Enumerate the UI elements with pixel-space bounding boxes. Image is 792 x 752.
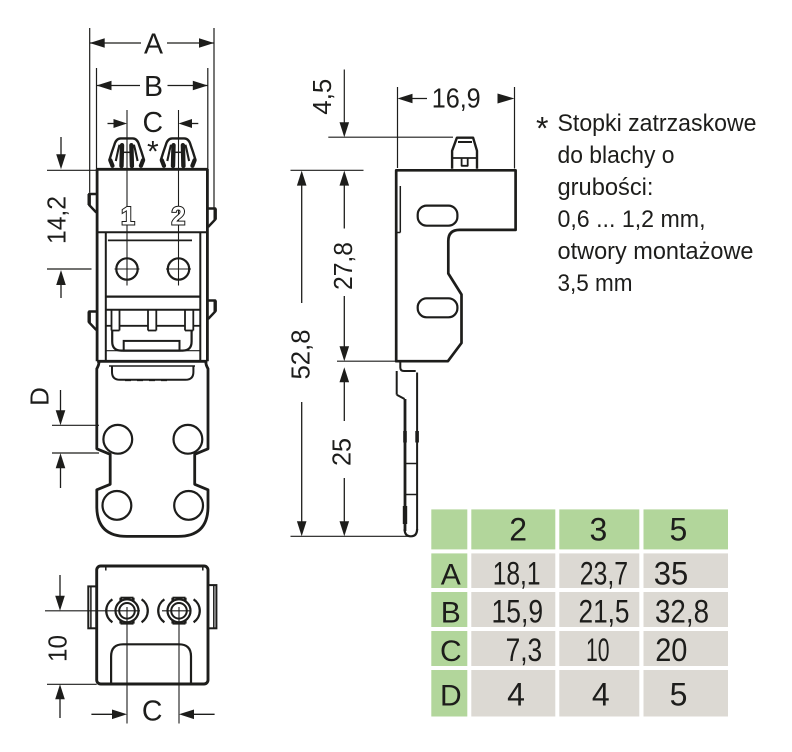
svg-text:2: 2: [171, 203, 185, 231]
svg-text:52,8: 52,8: [286, 330, 316, 380]
svg-text:*: *: [536, 111, 548, 147]
svg-text:A: A: [441, 558, 461, 591]
svg-text:14,2: 14,2: [41, 196, 71, 244]
svg-text:3: 3: [590, 512, 608, 548]
svg-text:35: 35: [654, 555, 689, 591]
svg-text:20: 20: [655, 632, 687, 668]
svg-text:4,5: 4,5: [307, 79, 337, 115]
svg-text:5: 5: [670, 512, 688, 548]
svg-text:0,6 ... 1,2 mm,: 0,6 ... 1,2 mm,: [558, 206, 706, 233]
svg-text:4: 4: [507, 676, 525, 712]
svg-text:D: D: [24, 387, 54, 406]
svg-text:B: B: [144, 71, 163, 103]
svg-text:32,8: 32,8: [655, 593, 709, 629]
svg-text:3,5 mm: 3,5 mm: [558, 270, 633, 297]
svg-text:A: A: [144, 29, 163, 61]
svg-text:21,5: 21,5: [579, 593, 630, 629]
svg-text:C: C: [142, 696, 163, 728]
svg-text:15,9: 15,9: [492, 593, 544, 629]
svg-text:7,3: 7,3: [506, 632, 543, 668]
svg-text:10: 10: [586, 632, 610, 668]
svg-text:otwory montażowe: otwory montażowe: [558, 238, 754, 265]
svg-text:4: 4: [592, 676, 610, 712]
svg-text:18,1: 18,1: [493, 555, 541, 591]
svg-text:25: 25: [326, 438, 356, 466]
svg-text:10: 10: [42, 635, 72, 662]
svg-text:D: D: [440, 679, 462, 712]
svg-text:C: C: [440, 635, 462, 668]
svg-text:C: C: [143, 107, 164, 139]
svg-text:B: B: [441, 596, 461, 629]
svg-text:23,7: 23,7: [580, 555, 628, 591]
svg-text:1: 1: [121, 203, 135, 231]
svg-text:16,9: 16,9: [432, 82, 481, 113]
svg-text:27,8: 27,8: [328, 242, 358, 290]
svg-text:Stopki zatrzaskowe: Stopki zatrzaskowe: [558, 110, 757, 137]
svg-text:2: 2: [509, 512, 527, 548]
svg-text:*: *: [147, 136, 159, 169]
svg-text:do blachy o: do blachy o: [558, 142, 675, 169]
svg-text:grubości:: grubości:: [558, 174, 654, 201]
svg-text:5: 5: [670, 676, 688, 712]
